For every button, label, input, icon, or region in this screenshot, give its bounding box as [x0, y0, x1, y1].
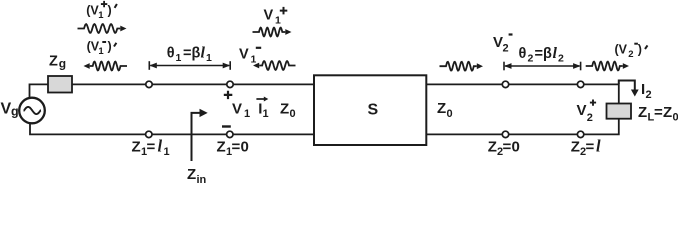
- svg-text:V: V: [493, 34, 503, 51]
- svg-text:V: V: [232, 101, 242, 118]
- svg-text:1: 1: [98, 46, 104, 57]
- svg-text:θ: θ: [167, 45, 175, 61]
- svg-text:Z: Z: [663, 104, 672, 121]
- svg-text:): ): [638, 43, 642, 57]
- svg-text:=: =: [586, 139, 595, 156]
- svg-text:2: 2: [646, 89, 652, 101]
- svg-text:0: 0: [241, 139, 249, 156]
- svg-text:Z: Z: [187, 166, 196, 183]
- svg-text:β: β: [543, 46, 552, 62]
- svg-text:θ: θ: [519, 46, 527, 62]
- svg-text:0: 0: [512, 139, 520, 156]
- svg-text:V: V: [264, 8, 274, 24]
- svg-text:0: 0: [290, 108, 296, 120]
- svg-text:Z: Z: [488, 139, 497, 156]
- svg-text:V: V: [1, 101, 12, 118]
- svg-text:=: =: [535, 46, 543, 62]
- svg-text:=: =: [232, 139, 241, 156]
- svg-text:1: 1: [98, 10, 104, 21]
- svg-text:): ): [108, 4, 112, 18]
- svg-text:2: 2: [558, 53, 564, 65]
- svg-text:1: 1: [176, 52, 182, 64]
- svg-text:1: 1: [206, 52, 212, 64]
- svg-text:l: l: [158, 137, 163, 156]
- svg-text:0: 0: [447, 108, 453, 120]
- svg-text:=: =: [654, 104, 663, 121]
- svg-text:1: 1: [263, 108, 269, 120]
- svg-text:in: in: [197, 174, 207, 185]
- svg-text:1: 1: [244, 108, 250, 120]
- svg-text:Z: Z: [49, 54, 58, 70]
- svg-text:=: =: [147, 139, 156, 156]
- svg-text:l: l: [596, 137, 601, 156]
- svg-text:g: g: [11, 105, 19, 119]
- svg-text:(V: (V: [615, 43, 628, 57]
- svg-text:Z: Z: [638, 104, 647, 121]
- svg-text:Z: Z: [132, 139, 141, 156]
- svg-text:): ): [108, 40, 112, 54]
- svg-text:2: 2: [587, 112, 593, 124]
- svg-text:l: l: [553, 45, 558, 62]
- svg-text:Z: Z: [217, 139, 226, 156]
- svg-text:2: 2: [528, 52, 534, 64]
- svg-text:S: S: [368, 102, 379, 119]
- svg-text:Z: Z: [280, 101, 289, 118]
- svg-text:0: 0: [673, 112, 678, 124]
- svg-text:1: 1: [251, 54, 257, 66]
- svg-text:V: V: [577, 102, 587, 119]
- svg-text:2: 2: [503, 42, 509, 54]
- svg-text:V: V: [239, 47, 249, 63]
- svg-text:g: g: [59, 57, 66, 71]
- svg-text:2: 2: [628, 49, 633, 60]
- svg-text:β: β: [192, 45, 201, 61]
- svg-text:1: 1: [275, 15, 281, 27]
- svg-text:Z: Z: [437, 100, 446, 117]
- svg-text:l: l: [201, 44, 206, 61]
- svg-text:1: 1: [164, 146, 170, 158]
- svg-text:Z: Z: [571, 139, 580, 156]
- svg-text:=: =: [503, 139, 512, 156]
- svg-text:=: =: [183, 45, 191, 61]
